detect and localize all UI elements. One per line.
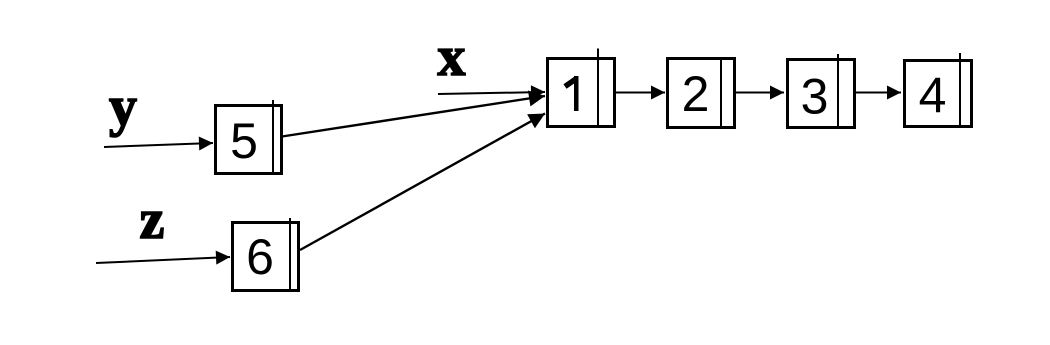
svg-text:y: y — [109, 76, 137, 138]
svg-text:4: 4 — [919, 68, 947, 124]
arrow box1 to box2 — [616, 92, 665, 94]
arrow box5 to box1 — [282, 96, 545, 137]
svg-text:z: z — [140, 189, 165, 251]
svg-text:5: 5 — [230, 113, 258, 169]
arrow y to box5 — [104, 143, 213, 147]
svg-text:3: 3 — [801, 69, 829, 125]
node box 5 — [216, 100, 282, 174]
node box 3 — [788, 54, 855, 128]
arrow box2 to box3 — [736, 92, 784, 94]
svg-text:2: 2 — [682, 66, 710, 122]
node box 4 — [905, 53, 972, 127]
svg-text:6: 6 — [246, 229, 274, 285]
node box 2 — [668, 59, 735, 128]
node box 1 — [548, 49, 615, 127]
arrow box3 to box4 — [856, 92, 901, 94]
arrow box6 to box1 — [300, 114, 545, 251]
value 1 — [565, 76, 579, 111]
arrow x to box1 — [438, 92, 545, 94]
node box 6 — [233, 218, 299, 291]
svg-text:x: x — [438, 26, 466, 88]
arrow z to box6 — [96, 257, 230, 263]
